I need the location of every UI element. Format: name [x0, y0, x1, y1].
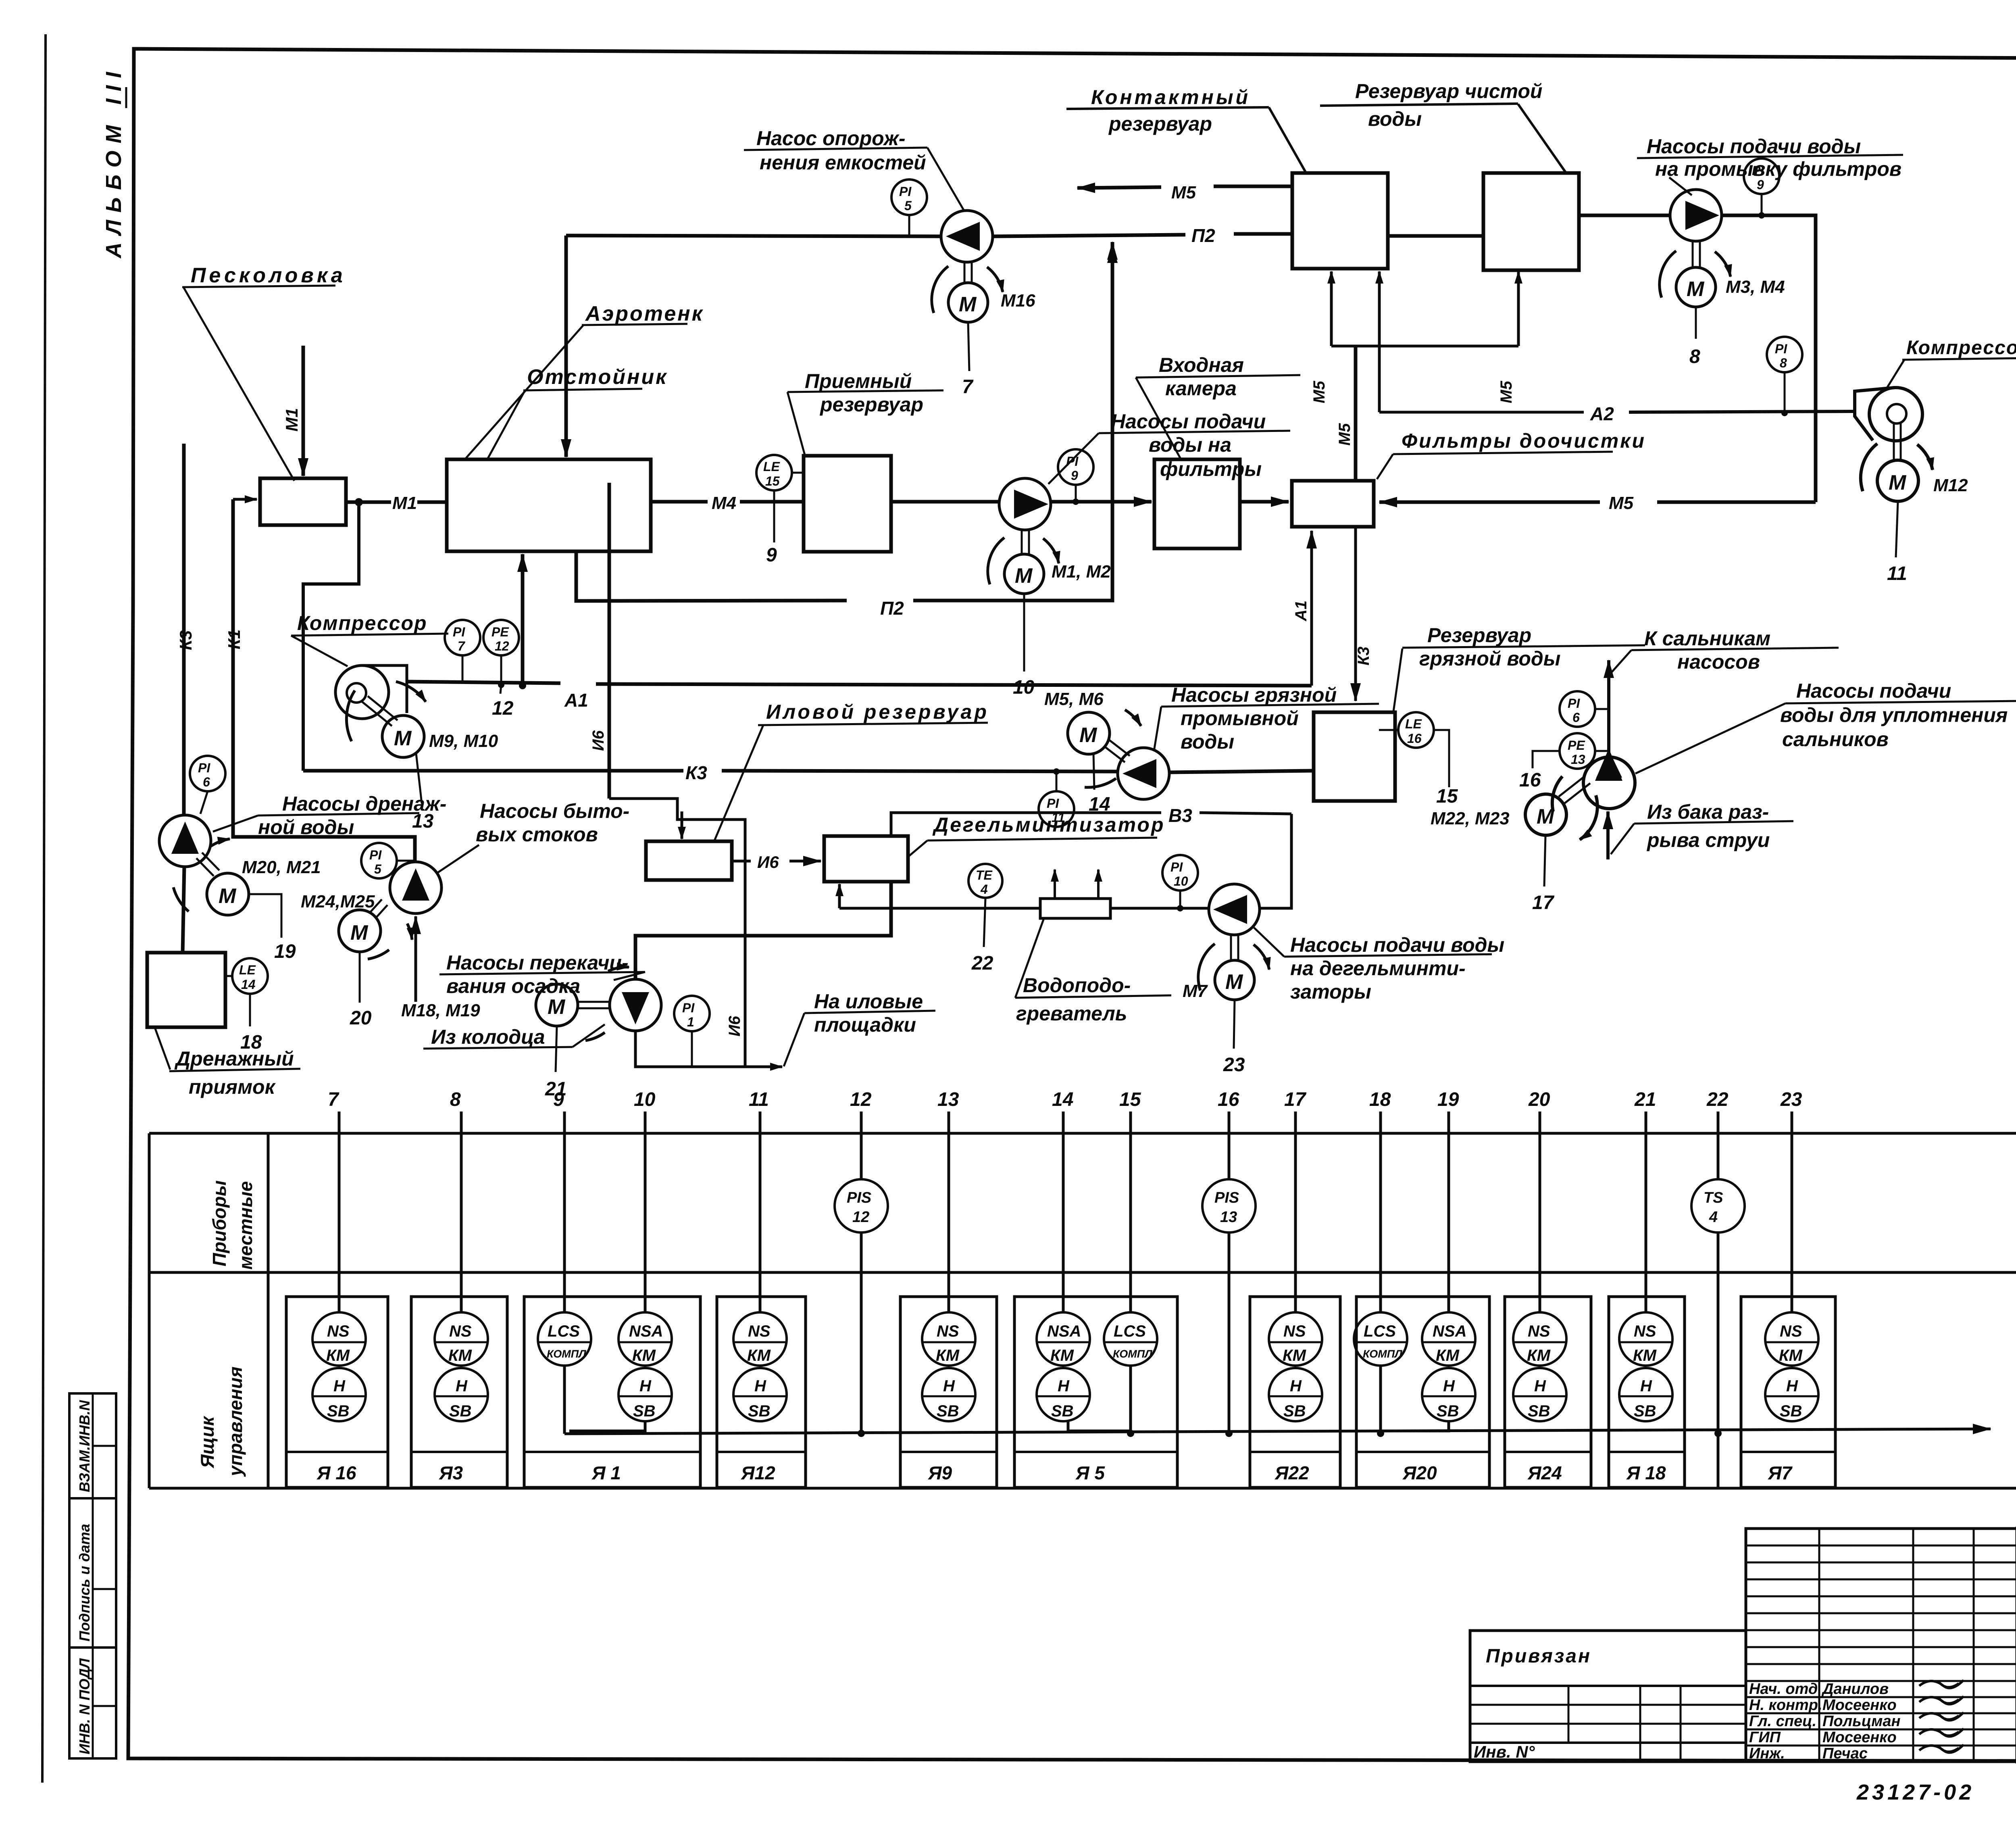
svg-text:Я 5: Я 5: [1075, 1462, 1105, 1483]
svg-text:PE: PE: [1568, 738, 1585, 753]
svg-text:КМ: КМ: [747, 1347, 771, 1364]
box Ya7 instruments: [1765, 1312, 1818, 1366]
pipe K3 pump to tank: [1169, 771, 1314, 772]
svg-text:SB: SB: [1780, 1402, 1802, 1420]
leader dirty wash pumps: [1154, 707, 1161, 751]
svg-text:22: 22: [1706, 1089, 1729, 1110]
svg-text:Н: Н: [1058, 1377, 1070, 1395]
pipe K3 horizontal: [303, 769, 683, 773]
svg-text:резервуар: резервуар: [819, 393, 923, 416]
instrument PIS12: [835, 1179, 888, 1233]
svg-text:И6: И6: [757, 853, 779, 872]
pipe arrow up into dehelmintizer bottom: [838, 884, 841, 908]
svg-text:PI: PI: [899, 184, 912, 199]
svg-text:Водоподо-: Водоподо-: [1023, 974, 1131, 997]
instrument TS4: [1691, 1179, 1745, 1233]
svg-text:7: 7: [328, 1089, 339, 1110]
svg-text:23: 23: [1223, 1054, 1245, 1076]
svg-text:SB: SB: [1283, 1402, 1306, 1420]
instrument PE13: [1560, 733, 1595, 769]
svg-text:12: 12: [852, 1209, 869, 1226]
svg-text:9: 9: [766, 544, 777, 566]
svg-text:13: 13: [937, 1089, 959, 1110]
svg-text:А1: А1: [564, 690, 588, 711]
svg-text:КМ: КМ: [1633, 1347, 1657, 1364]
instrument PI6 drain: [190, 756, 225, 791]
svg-text:4: 4: [1709, 1209, 1718, 1226]
svg-text:КМ: КМ: [448, 1347, 473, 1364]
wire motor to 17: [1544, 835, 1545, 886]
wire motor to 10: [1023, 594, 1025, 672]
svg-text:КМ: КМ: [326, 1347, 350, 1364]
control box Я 18: [1609, 1297, 1685, 1487]
instrument LE14: [232, 958, 268, 994]
box Ya16 instruments: [312, 1312, 366, 1366]
svg-text:Насосы подачи: Насосы подачи: [1111, 410, 1266, 433]
svg-text:нения емкостей: нения емкостей: [760, 151, 926, 174]
leader drain pit: [155, 1028, 170, 1070]
svg-text:Данилов: Данилов: [1821, 1681, 1889, 1698]
svg-text:Нач. отд: Нач. отд: [1749, 1681, 1818, 1698]
svg-text:М: М: [350, 921, 369, 945]
svg-text:PI: PI: [1752, 163, 1764, 178]
pipe P2 drop from settler: [576, 551, 847, 601]
pipe tank to wash pump: [1579, 214, 1670, 217]
svg-text:20: 20: [1528, 1089, 1550, 1110]
svg-text:NS: NS: [937, 1322, 959, 1340]
svg-text:15: 15: [765, 474, 780, 488]
svg-text:М20, М21: М20, М21: [242, 857, 321, 877]
tank peskolovka: [260, 478, 346, 525]
pipe sludge to dehelmintizer: [635, 882, 891, 979]
instrument PI8: [1767, 337, 1802, 372]
instrument LE16: [1398, 712, 1434, 748]
svg-text:SB: SB: [1634, 1402, 1656, 1420]
svg-text:промывной: промывной: [1181, 707, 1299, 730]
svg-text:LCS: LCS: [1364, 1322, 1396, 1340]
privyazan block: [1470, 1631, 1746, 1762]
leader domestic pumps: [436, 845, 479, 874]
svg-text:PIS: PIS: [1214, 1189, 1239, 1206]
pipe P2 through pump to right: [993, 235, 1185, 236]
svg-text:Я 16: Я 16: [317, 1462, 356, 1483]
control box Я 5: [1014, 1297, 1177, 1487]
wire motor to 8: [1695, 307, 1697, 339]
svg-text:Я 18: Я 18: [1626, 1462, 1666, 1483]
instrument PE12: [483, 620, 519, 655]
leader heater: [1015, 920, 1043, 998]
svg-text:16: 16: [1218, 1089, 1239, 1110]
svg-text:Н: Н: [943, 1377, 955, 1395]
control box Я7: [1741, 1297, 1835, 1487]
svg-text:М5: М5: [1609, 493, 1634, 513]
instrument PI6 gland: [1560, 691, 1595, 727]
svg-text:АЛЬБОМ III: АЛЬБОМ III: [102, 65, 126, 259]
svg-text:М: М: [959, 293, 977, 316]
wire PE13 to 16: [1533, 751, 1560, 768]
svg-text:сальников: сальников: [1782, 728, 1889, 751]
svg-text:Фильтры доочистки: Фильтры доочистки: [1402, 430, 1646, 452]
box Ya5 instruments: [1037, 1312, 1090, 1366]
pipe M18M19 discharge into sludge tank: [681, 811, 683, 839]
leader drain pumps: [213, 815, 258, 832]
instrument TE4: [968, 864, 1002, 898]
pipe K1 vertical: [233, 499, 415, 861]
svg-text:воды: воды: [1368, 108, 1422, 130]
instrument PI9 near filter pump: [1058, 449, 1093, 485]
svg-text:LCS: LCS: [548, 1322, 580, 1340]
leader compressor right: [1885, 360, 1904, 390]
svg-text:Приборы: Приборы: [209, 1180, 230, 1266]
svg-text:SB: SB: [1437, 1402, 1459, 1420]
svg-text:23127-02: 23127-02: [1856, 1780, 1974, 1804]
leader M7 pumps: [1254, 928, 1284, 957]
svg-text:К сальникам: К сальникам: [1644, 627, 1770, 650]
svg-text:Подпись и дата: Подпись и дата: [76, 1524, 93, 1641]
pipe I6 settler internal drop: [608, 483, 611, 799]
svg-text:Насосы дренаж-: Насосы дренаж-: [282, 792, 446, 815]
svg-text:Компрессор: Компрессор: [1906, 337, 2016, 359]
box Ya9 instruments: [922, 1312, 975, 1366]
svg-text:воды: воды: [1181, 730, 1234, 753]
svg-text:М: М: [1079, 724, 1098, 747]
svg-text:А1: А1: [1292, 601, 1310, 621]
svg-text:PI: PI: [453, 625, 465, 639]
svg-text:М7: М7: [1183, 981, 1208, 1001]
svg-text:Н: Н: [1534, 1377, 1546, 1395]
pipe riser2 to contact tank: [1378, 271, 1381, 412]
svg-text:19: 19: [274, 941, 296, 962]
wire jog peskolovka drain to K3: [303, 502, 359, 771]
svg-text:15: 15: [1119, 1089, 1141, 1110]
svg-text:LE: LE: [763, 459, 781, 474]
svg-text:Н: Н: [1290, 1377, 1302, 1395]
svg-text:ТЕ: ТЕ: [976, 868, 993, 882]
svg-text:Я12: Я12: [741, 1462, 775, 1483]
water heater box: [1040, 899, 1110, 918]
svg-text:воды для уплотнения: воды для уплотнения: [1780, 704, 2008, 726]
svg-text:Резервуар: Резервуар: [1427, 624, 1531, 647]
svg-text:8: 8: [1780, 356, 1787, 370]
svg-text:М5: М5: [1171, 183, 1196, 202]
svg-text:ГИП: ГИП: [1749, 1729, 1781, 1746]
svg-text:7: 7: [962, 376, 974, 398]
svg-text:заторы: заторы: [1290, 980, 1371, 1003]
shaft sludge pump: [578, 1001, 610, 1003]
motor M1 M2: [1021, 530, 1023, 554]
tank priyomny rezervuar: [804, 456, 891, 552]
leader priyomny: [787, 392, 805, 455]
svg-text:Н: Н: [754, 1377, 766, 1395]
svg-text:Я 1: Я 1: [591, 1462, 621, 1483]
svg-text:управления: управления: [225, 1366, 246, 1477]
motor M22 M23: [1525, 794, 1566, 835]
leader nasos oporozhneniya: [927, 148, 964, 211]
svg-text:К3: К3: [685, 762, 707, 783]
svg-text:NS: NS: [1528, 1322, 1550, 1340]
svg-text:14: 14: [1052, 1089, 1073, 1110]
svg-text:SB: SB: [748, 1402, 771, 1420]
tank contact: [1292, 173, 1388, 269]
svg-text:М1: М1: [392, 493, 417, 513]
svg-text:NS: NS: [1780, 1322, 1802, 1340]
svg-text:М18, М19: М18, М19: [401, 1001, 480, 1020]
svg-text:SB: SB: [937, 1402, 959, 1420]
svg-text:ной воды: ной воды: [258, 816, 354, 838]
svg-text:10: 10: [1013, 677, 1035, 698]
svg-text:Н: Н: [1640, 1377, 1652, 1395]
pipe P2 lower right part: [913, 242, 1112, 601]
pump M18 M19 sludge transfer pump: [610, 979, 661, 1031]
control box Я 1: [524, 1297, 700, 1487]
svg-text:NSA: NSA: [1433, 1322, 1466, 1340]
svg-text:Из бака раз-: Из бака раз-: [1647, 801, 1769, 823]
svg-text:КМ: КМ: [1527, 1347, 1551, 1364]
svg-text:воды на: воды на: [1149, 434, 1231, 456]
svg-text:Н: Н: [1443, 1377, 1455, 1395]
pipe A1 riser to aerotank: [521, 554, 525, 686]
svg-text:Печас: Печас: [1822, 1745, 1868, 1762]
leader iz baka: [1611, 824, 1634, 854]
leader gland pumps: [1635, 703, 1785, 774]
svg-text:22: 22: [971, 953, 993, 974]
svg-text:Мосеенко: Мосеенко: [1822, 1729, 1897, 1746]
svg-text:PE: PE: [492, 625, 509, 639]
svg-text:Приемный: Приемный: [805, 370, 912, 392]
pipe V3 from dehelmintizer top: [891, 813, 1161, 836]
control box Я12: [717, 1297, 806, 1487]
tank aerotank+settler: [447, 459, 651, 551]
box Ya3 instruments: [435, 1312, 488, 1366]
pump M20 M21 drain pump: [159, 815, 211, 867]
leader sludge beds: [784, 1013, 804, 1066]
svg-text:SB: SB: [633, 1402, 656, 1420]
svg-text:На иловые: На иловые: [814, 990, 923, 1013]
svg-text:PIS: PIS: [847, 1189, 871, 1206]
table frame horizontals: [149, 1132, 2016, 1135]
svg-text:на дегельминти-: на дегельминти-: [1290, 957, 1466, 980]
svg-text:TS: TS: [1704, 1189, 1723, 1206]
svg-text:PI: PI: [1047, 796, 1059, 811]
svg-text:К1: К1: [225, 630, 244, 649]
svg-text:М: М: [1225, 970, 1243, 994]
svg-text:Я3: Я3: [439, 1462, 463, 1483]
pipe M4 settler to reservoir: [651, 500, 708, 504]
svg-text:16: 16: [1519, 770, 1541, 791]
svg-text:9: 9: [1757, 177, 1764, 192]
motor M18 M19: [536, 984, 578, 1026]
svg-text:Ящик: Ящик: [197, 1415, 218, 1468]
wire motor M20M21 to 19: [249, 894, 281, 938]
svg-text:10: 10: [1174, 874, 1188, 888]
svg-text:площадки: площадки: [814, 1014, 916, 1036]
svg-text:К3: К3: [176, 630, 195, 650]
svg-text:М: М: [219, 884, 237, 908]
tank sludge: [646, 841, 732, 880]
svg-text:NS: NS: [1634, 1322, 1656, 1340]
control box Я24: [1505, 1297, 1591, 1487]
svg-text:16: 16: [1407, 731, 1422, 746]
svg-text:PI: PI: [1568, 696, 1580, 711]
instrument PI5: [891, 179, 927, 215]
leader wash pumps: [1669, 177, 1692, 195]
svg-text:М: М: [1889, 471, 1907, 494]
svg-text:NS: NS: [449, 1322, 472, 1340]
motor M12: [1893, 423, 1895, 461]
control box Я 16: [286, 1297, 388, 1487]
svg-text:NSA: NSA: [629, 1322, 663, 1340]
motor M20 M21: [207, 873, 249, 915]
pipe to sludge beds: [635, 1031, 685, 1067]
wire LE16 to 15: [1434, 730, 1449, 787]
svg-text:Насосы подачи: Насосы подачи: [1796, 680, 1951, 702]
svg-text:Аэротенк: Аэротенк: [585, 302, 704, 325]
heater top arrows: [1054, 870, 1056, 899]
svg-text:И6: И6: [589, 730, 607, 751]
svg-text:19: 19: [1437, 1089, 1459, 1110]
svg-text:И6: И6: [726, 1016, 744, 1037]
tank filters: [1292, 481, 1374, 527]
svg-text:LCS: LCS: [1114, 1322, 1146, 1340]
leader iz kolodtsa: [573, 1024, 605, 1047]
sheet outer left edge: [42, 34, 46, 1783]
svg-text:Привязан: Привязан: [1486, 1645, 1591, 1667]
svg-text:LE: LE: [239, 963, 256, 977]
album underline: [125, 87, 127, 108]
pipe M5 top arrow: [1214, 185, 1292, 188]
svg-text:Я20: Я20: [1402, 1462, 1437, 1483]
svg-text:М5: М5: [1336, 423, 1354, 446]
svg-text:Гл. спец.: Гл. спец.: [1749, 1713, 1816, 1730]
wire motor M16 to 7: [968, 322, 969, 371]
svg-text:КОМПЛ: КОМПЛ: [547, 1348, 587, 1360]
pipe A2: [1379, 411, 1584, 414]
signature grid: [1746, 1529, 2016, 1762]
svg-text:М: М: [548, 995, 566, 1019]
svg-text:12: 12: [492, 698, 514, 719]
pipe wash pump loop: [1722, 215, 1816, 502]
svg-text:Н: Н: [456, 1377, 468, 1395]
svg-text:SB: SB: [1051, 1402, 1074, 1420]
pipe K3 vertical left: [182, 444, 186, 815]
svg-text:М: М: [394, 727, 412, 750]
pipe manifold: [1331, 345, 1518, 348]
svg-text:грязной воды: грязной воды: [1419, 647, 1560, 670]
shaft dirty wash: [1104, 746, 1125, 762]
svg-text:8: 8: [450, 1089, 461, 1110]
pipe V3 loop down to pump M7: [1260, 814, 1291, 908]
shaft domestic pump: [370, 899, 382, 912]
svg-text:М16: М16: [1001, 291, 1035, 311]
svg-text:М1: М1: [282, 408, 301, 432]
svg-text:КОМПЛ: КОМПЛ: [1113, 1348, 1153, 1360]
leader filter pumps: [1048, 433, 1099, 484]
instrument LE15: [756, 455, 792, 490]
pipe M1 inlet vertical: [302, 346, 305, 476]
shaft gland pump: [1559, 776, 1585, 797]
wire motor M7 to 23: [1234, 1000, 1235, 1049]
wire motor M9M10 to 13: [416, 753, 422, 803]
svg-text:PI: PI: [1066, 454, 1079, 469]
pipe chamber to filters: [1240, 500, 1289, 504]
svg-text:вания осадка: вания осадка: [446, 975, 580, 997]
svg-text:20: 20: [350, 1007, 372, 1029]
svg-text:КМ: КМ: [1050, 1347, 1075, 1364]
pipe from tank up into pump: [1606, 811, 1610, 859]
wire LE15 to 9: [773, 490, 775, 542]
pipe K1 into peskolovka: [233, 498, 257, 501]
box Ya22 instruments: [1269, 1312, 1322, 1366]
svg-text:Насосы быто-: Насосы быто-: [480, 800, 629, 822]
svg-text:Резервуар чистой: Резервуар чистой: [1355, 80, 1542, 102]
pipe I6 jog: [609, 799, 745, 1067]
svg-text:Насосы подачи воды: Насосы подачи воды: [1647, 135, 1861, 158]
svg-text:М5: М5: [1310, 381, 1328, 403]
pump M7 dehelmintizer feed pump: [1209, 884, 1260, 935]
svg-text:18: 18: [1369, 1089, 1391, 1110]
svg-text:LE: LE: [1405, 717, 1422, 731]
svg-text:КМ: КМ: [632, 1347, 656, 1364]
leader contact tank: [1269, 107, 1306, 173]
compressor left volute: [335, 665, 389, 719]
svg-text:NS: NS: [748, 1322, 771, 1340]
pipe M5 return from wash: [1657, 501, 1816, 504]
pump M5 M6 dirty wash pump: [1118, 748, 1169, 799]
instrument PI10: [1162, 855, 1198, 891]
svg-text:М5: М5: [1497, 381, 1515, 403]
svg-text:М3, М4: М3, М4: [1726, 277, 1785, 297]
motor M24 M25: [339, 910, 381, 952]
pump M16 emptying pump: [941, 211, 993, 262]
svg-text:Контактный: Контактный: [1091, 86, 1250, 108]
svg-text:КОМПЛ: КОМПЛ: [1363, 1348, 1403, 1360]
svg-text:Я22: Я22: [1275, 1462, 1309, 1483]
shaft compressor motor: [362, 702, 392, 726]
control box Я20: [1356, 1297, 1489, 1487]
svg-text:5: 5: [904, 198, 912, 213]
svg-text:SB: SB: [449, 1402, 472, 1420]
pipe K3 pump to drain pit: [183, 867, 184, 953]
instrument PI7: [445, 620, 480, 655]
pipe M1 peskolovka to aerotank: [346, 501, 391, 504]
motor M7: [1230, 935, 1232, 960]
svg-text:12: 12: [850, 1089, 872, 1110]
wire TE4 to 22: [984, 898, 985, 947]
svg-text:23: 23: [1780, 1089, 1802, 1110]
svg-text:Мосеенко: Мосеенко: [1822, 1697, 1897, 1714]
svg-text:К3: К3: [1355, 647, 1372, 665]
svg-text:Из колодца: Из колодца: [431, 1026, 545, 1048]
pipe pump to inlet chamber: [1051, 500, 1152, 504]
leader sludge pumps: [614, 972, 645, 980]
leader clean water tank: [1518, 104, 1566, 173]
svg-text:КМ: КМ: [1283, 1347, 1307, 1364]
leader dehelmintizer: [909, 840, 927, 856]
leader otstoynik: [487, 390, 525, 460]
svg-text:Входная: Входная: [1159, 354, 1244, 376]
svg-text:Инв. N°: Инв. N°: [1474, 1742, 1535, 1761]
leader aerotank: [464, 325, 583, 460]
svg-text:КМ: КМ: [1779, 1347, 1803, 1364]
tank dirty water: [1314, 712, 1395, 801]
svg-text:Отстойник: Отстойник: [527, 365, 668, 389]
svg-text:17: 17: [1284, 1089, 1307, 1110]
svg-text:Польцман: Польцман: [1822, 1713, 1901, 1730]
svg-text:PI: PI: [198, 761, 210, 775]
svg-text:М9, М10: М9, М10: [429, 731, 498, 751]
leader inlet chamber: [1136, 377, 1181, 459]
svg-text:11: 11: [1887, 563, 1907, 584]
